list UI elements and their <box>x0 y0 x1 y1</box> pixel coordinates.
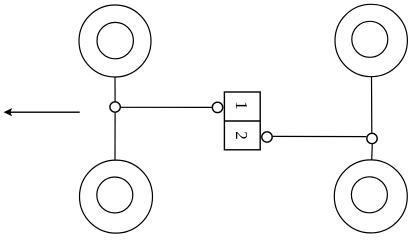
gearbox port 1 connector circle <box>212 102 222 112</box>
svg-text:2: 2 <box>232 131 251 140</box>
wheel rear-left outer <box>80 160 153 233</box>
gearbox port 2 connector circle <box>262 132 272 142</box>
wire node A to gearbox port 1 <box>121 106 212 108</box>
wire node A to rear-left wheel <box>114 113 116 160</box>
gearbox pin label 2 <box>232 131 251 140</box>
node A junction circle <box>110 102 120 112</box>
wheel front-left inner <box>97 22 133 58</box>
node B junction circle <box>367 133 377 143</box>
direction arrow shaft <box>10 111 80 113</box>
wire front-left wheel to node A <box>114 77 116 101</box>
wheel front-left outer <box>79 5 151 77</box>
wheel rear-left inner <box>97 177 133 213</box>
gearbox U1 body <box>224 92 260 150</box>
wire front-right wheel to node B <box>371 77 373 133</box>
wire node B to rear-right wheel <box>371 144 374 160</box>
wheel front-right outer <box>335 4 407 76</box>
wheel rear-right inner <box>351 177 387 213</box>
svg-text:1: 1 <box>232 101 251 110</box>
wheel rear-right outer <box>334 160 407 233</box>
direction arrow head <box>4 109 11 116</box>
wire gearbox port 2 to node B <box>273 135 366 137</box>
wheel front-right inner <box>352 21 388 57</box>
gearbox pin label 1 <box>232 101 251 110</box>
